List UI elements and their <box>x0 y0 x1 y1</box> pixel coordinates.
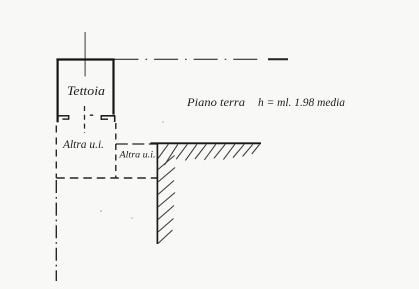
svg-text:Piano terra: Piano terra <box>186 95 245 109</box>
svg-text:Tettoia: Tettoia <box>67 83 106 98</box>
svg-text:h = ml. 1.98 media: h = ml. 1.98 media <box>258 95 345 109</box>
svg-text:Altra u.i.: Altra u.i. <box>118 151 155 161</box>
svg-text:Altra u.i.: Altra u.i. <box>62 139 104 151</box>
